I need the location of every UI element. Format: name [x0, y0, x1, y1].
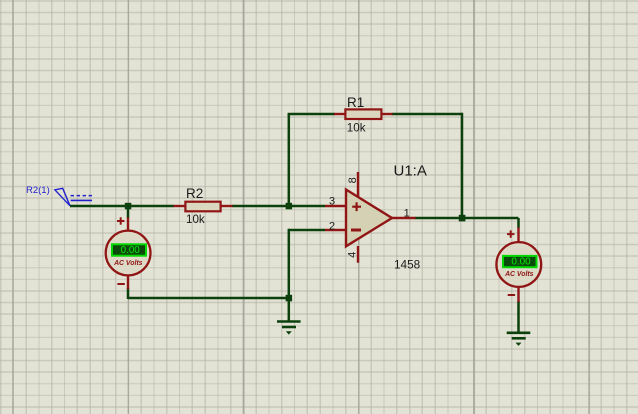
svg-text:AC Volts: AC Volts: [504, 271, 534, 278]
svg-text:R1: R1: [347, 95, 364, 110]
meter body: [496, 242, 541, 287]
probe dashed line: [71, 195, 92, 197]
pin 8 lead: [357, 172, 359, 198]
wire: left voltmeter top stub: [127, 206, 130, 218]
probe solid line: [71, 199, 92, 201]
svg-text:R2(1): R2(1): [26, 185, 50, 196]
wire: feedback top horizontal left of R1: [288, 113, 335, 116]
plus terminal mark: [507, 233, 514, 235]
pin 1 lead: [390, 217, 416, 219]
resistor R1: [334, 95, 393, 135]
plus terminal mark: [117, 220, 124, 222]
wire: left voltmeter return horizontal: [128, 297, 289, 300]
wire: output down to right voltmeter: [517, 218, 520, 228]
svg-text:8: 8: [347, 177, 359, 183]
digital display: [112, 244, 146, 255]
node: junction at meter return / ground: [286, 295, 293, 302]
svg-text:1458: 1458: [394, 258, 421, 272]
wire: feedback right vertical: [461, 113, 464, 218]
pin 2 lead: [325, 229, 346, 231]
wire: R2 to op-amp pin 3: [232, 205, 325, 208]
node: junction at left voltmeter tap: [125, 203, 132, 210]
minus terminal mark: [508, 294, 515, 296]
digital display: [503, 256, 537, 267]
op-amp U1:A: [325, 162, 427, 271]
svg-text:0.00: 0.00: [511, 257, 531, 268]
triangle body: [346, 190, 392, 247]
plus mark (non-inverting input): [352, 206, 361, 208]
svg-text:AC Volts: AC Volts: [113, 260, 143, 267]
wire: pin 2 vertical down to ground junction: [288, 229, 291, 321]
ground (right, below voltmeter): [507, 333, 531, 346]
pin 3 lead: [325, 205, 346, 207]
svg-text:0.00: 0.00: [121, 245, 141, 256]
voltmeter VM2 (right, AC Volts): [496, 228, 541, 303]
svg-text:10k: 10k: [347, 122, 366, 135]
pin 4 lead: [357, 246, 359, 263]
node: junction at feedback tap on input wire: [286, 203, 293, 210]
svg-text:1: 1: [404, 208, 410, 220]
svg-text:R2: R2: [186, 186, 203, 201]
resistor R2: [174, 186, 233, 226]
node label R2(1) voltage probe: [26, 185, 92, 206]
svg-text:3: 3: [329, 196, 335, 208]
svg-text:U1:A: U1:A: [394, 162, 427, 179]
wire: feedback top horizontal right of R1: [392, 113, 462, 116]
wire: output horizontal: [415, 217, 519, 220]
minus mark (inverting input): [351, 229, 361, 232]
meter body: [106, 231, 151, 276]
svg-text:2: 2: [329, 220, 335, 232]
wire: right voltmeter to ground: [517, 301, 520, 333]
wire: feedback left vertical: [288, 114, 291, 206]
wire: left voltmeter bottom stub: [127, 288, 130, 299]
node: junction at output feedback tap: [459, 215, 466, 222]
minus terminal mark: [117, 283, 124, 285]
probe cone: [55, 188, 70, 206]
wire: op-amp pin 2 horizontal: [289, 229, 325, 232]
voltmeter VM1 (left, AC Volts): [106, 217, 151, 289]
svg-text:10k: 10k: [186, 213, 205, 226]
wire: main input horizontal (probe to R2): [70, 205, 174, 208]
svg-text:4: 4: [347, 252, 359, 258]
ground (left, below meter return): [277, 322, 301, 335]
